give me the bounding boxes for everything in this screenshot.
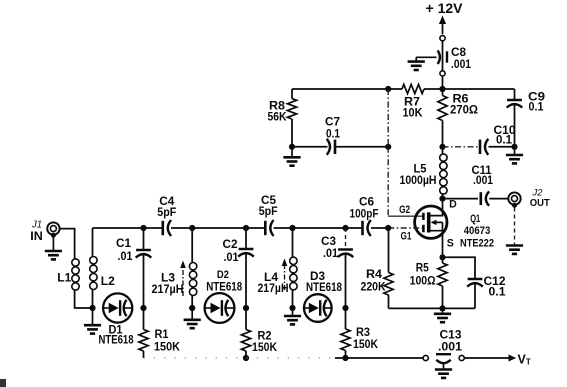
varactor diode D3 (304, 294, 332, 322)
capacitor C6 (363, 220, 389, 236)
node: R8 bottom (289, 144, 295, 150)
node (243, 355, 249, 361)
svg-text:NTE618: NTE618 (206, 280, 242, 294)
svg-text:0.1: 0.1 (489, 286, 507, 299)
label R2 value (252, 330, 278, 355)
svg-text:S: S (447, 237, 454, 249)
varactor diode D2 (205, 293, 235, 323)
svg-text:220K: 220K (361, 281, 387, 294)
label C5 value (259, 194, 278, 218)
label C4 value (157, 195, 176, 219)
ground (C8) (408, 57, 437, 70)
node: supply junction (439, 86, 445, 92)
svg-text:OUT: OUT (530, 197, 551, 209)
label C3 value (321, 235, 339, 260)
label L2 (101, 275, 115, 288)
ground (J1) (45, 235, 62, 259)
node: G1/R4 junction (385, 225, 391, 231)
svg-text:40673: 40673 (464, 225, 491, 237)
svg-text:150K: 150K (252, 341, 278, 354)
label C8 value (451, 45, 471, 71)
label D3 type (306, 270, 342, 294)
svg-text:G1: G1 (401, 231, 412, 243)
inductor L3 (189, 228, 196, 308)
capacitor C11 (443, 191, 509, 205)
ground (R8) (283, 147, 300, 166)
node (189, 305, 195, 311)
wire (443, 257, 476, 279)
wire (VT output) (465, 355, 517, 362)
capacitor C9 (507, 89, 523, 147)
label L5 value (400, 163, 437, 188)
svg-text:150K: 150K (353, 338, 379, 351)
resistor R2 (241, 308, 250, 358)
label Q1 type (460, 213, 494, 250)
svg-text:NTE222: NTE222 (460, 238, 494, 250)
resistor R3 (341, 308, 350, 358)
wire (gate-2 bias line) (388, 89, 422, 216)
svg-text:217µH: 217µH (152, 283, 184, 296)
ground (L1/L2) (84, 308, 101, 334)
wire (443, 88, 515, 90)
node (289, 305, 295, 311)
label C7 value (325, 116, 340, 141)
svg-text:VT: VT (518, 353, 531, 367)
svg-text:L2: L2 (101, 275, 115, 288)
svg-text:0.1: 0.1 (529, 101, 545, 114)
node (342, 225, 348, 231)
capacitor C3 (338, 228, 354, 308)
label R8 value (268, 100, 288, 124)
svg-text:.01: .01 (118, 250, 134, 263)
wire (top bias rail) (292, 88, 388, 90)
label J1 IN (30, 219, 43, 244)
pin label D (449, 199, 457, 211)
ground (J2) (506, 208, 523, 254)
node (189, 225, 195, 231)
svg-text:1000µH: 1000µH (400, 174, 437, 187)
label C2 value (223, 238, 240, 264)
svg-text:5pF: 5pF (157, 206, 176, 219)
label L3 value (152, 272, 184, 297)
label C12 value (484, 275, 507, 299)
svg-text:Q1: Q1 (470, 213, 480, 225)
svg-text:NTE618: NTE618 (99, 333, 134, 347)
pin label S (447, 237, 454, 249)
node (289, 225, 295, 231)
svg-text:5pF: 5pF (259, 205, 278, 218)
label D2 type (206, 269, 242, 294)
label VT (518, 353, 531, 367)
label R6 value (450, 93, 478, 117)
node (140, 225, 146, 231)
ground (L4) (284, 308, 301, 324)
label C13 value (438, 329, 463, 354)
svg-text:.01: .01 (224, 251, 240, 264)
label C1 value (116, 237, 133, 263)
node (342, 355, 348, 361)
label R1 value (154, 328, 181, 354)
node (89, 305, 95, 311)
node: bias divider junction (385, 86, 391, 92)
ground (C13) (435, 364, 452, 378)
node: R6/L5 junction (439, 144, 445, 150)
capacitor C2 (238, 228, 254, 308)
svg-text:C2: C2 (223, 238, 238, 251)
svg-text:L1: L1 (57, 272, 72, 285)
wire (source return) (389, 307, 476, 309)
node (439, 305, 445, 311)
label J2 OUT (530, 188, 551, 209)
resistor R4 (384, 228, 393, 308)
node (342, 305, 348, 311)
wire (VT bus, faint) (144, 357, 336, 359)
svg-text:R4: R4 (366, 268, 383, 281)
svg-text:.001: .001 (451, 58, 471, 71)
svg-text:100Ω: 100Ω (410, 275, 436, 288)
svg-text:+ 12V: + 12V (426, 1, 463, 16)
resistor R1 (139, 308, 148, 358)
label L4 value (258, 271, 289, 295)
inductor L1 (72, 259, 79, 290)
svg-text:0.1: 0.1 (326, 128, 340, 141)
power arrow +12V (439, 16, 446, 35)
node (140, 305, 146, 311)
node (243, 225, 249, 231)
inductor L2 (90, 228, 97, 308)
svg-text:56K: 56K (268, 111, 288, 124)
svg-text:.001: .001 (473, 174, 493, 187)
power rail +12V label (426, 1, 463, 16)
pin label G2 (399, 204, 410, 216)
tuning arrow (L3) (180, 261, 186, 297)
svg-text:.001: .001 (438, 341, 463, 354)
svg-text:150K: 150K (154, 341, 181, 354)
wire (main bus) (192, 227, 265, 229)
node S (source node) (439, 254, 445, 260)
svg-text:R1: R1 (155, 328, 170, 341)
varactor diode D1 (103, 293, 132, 322)
node: C9/C10 junction (511, 144, 517, 150)
connector J1 (47, 222, 59, 237)
node D (drain node) (439, 196, 445, 202)
wire (60, 229, 75, 259)
svg-text:G2: G2 (399, 204, 410, 216)
svg-text:IN: IN (30, 229, 43, 243)
feedthrough capacitor C13 (423, 354, 464, 363)
label D1 type (99, 324, 134, 347)
label C10 value (494, 124, 516, 147)
svg-text:100pF: 100pF (350, 208, 379, 221)
wire (gate-1 lead) (388, 227, 422, 229)
resistor R5 (438, 257, 447, 308)
scan mark (0, 379, 6, 387)
label R3 value (353, 326, 379, 351)
feedthrough capacitor C8 (438, 36, 447, 89)
label C11 value (472, 164, 494, 187)
capacitor C1 (136, 228, 152, 308)
svg-text:NTE618: NTE618 (306, 280, 342, 294)
node: C7 right junction (385, 144, 391, 150)
ground (C9/C10) (506, 147, 523, 164)
inductor L4 (290, 228, 297, 308)
wire (VT bus) (335, 357, 423, 359)
label R4 value (361, 268, 387, 294)
capacitor C5 (265, 220, 292, 236)
label C6 value (350, 196, 379, 221)
wire (75, 291, 93, 309)
connector J2 (508, 192, 520, 207)
resistor R8 (287, 89, 296, 147)
svg-text:R5: R5 (416, 262, 429, 275)
svg-text:D: D (449, 199, 457, 211)
tuning arrow (L4) (282, 259, 288, 291)
ground (L3) (184, 308, 201, 328)
label L1 (57, 272, 72, 285)
capacitor C10 (443, 139, 515, 155)
label R7 value (403, 96, 424, 120)
svg-text:0.1: 0.1 (496, 134, 513, 147)
capacitor C12 (467, 279, 483, 308)
svg-text:270Ω: 270Ω (450, 104, 478, 117)
transistor Q1 (dual-gate MOSFET) (415, 199, 447, 258)
node (243, 305, 249, 311)
svg-text:C8: C8 (451, 45, 466, 59)
resistor R7 (388, 84, 442, 93)
label C9 value (528, 91, 546, 114)
ground (source) (434, 308, 451, 322)
wire (main bus) (93, 227, 163, 229)
wire (main bus) (293, 227, 363, 229)
capacitor C7 (292, 139, 388, 155)
label R5 value (410, 262, 436, 288)
pin label G1 (401, 231, 412, 243)
svg-text:10K: 10K (403, 107, 424, 120)
capacitor C4 (163, 220, 192, 236)
svg-text:C1: C1 (116, 237, 132, 250)
resistor R6 (438, 89, 447, 147)
inductor L5 (440, 147, 447, 199)
svg-text:.01: .01 (323, 247, 339, 260)
